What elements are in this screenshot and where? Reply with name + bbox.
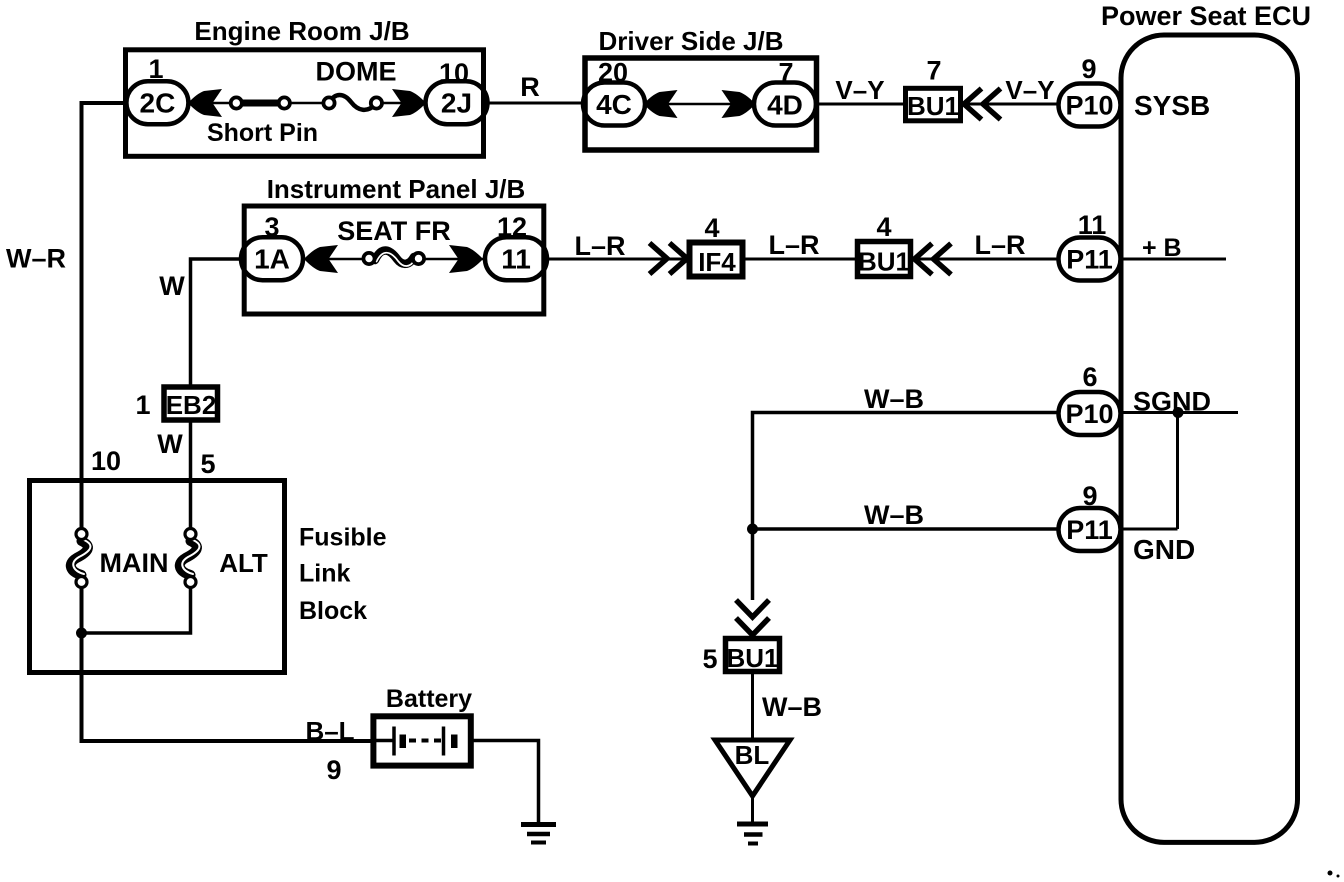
svg-text:9: 9	[326, 755, 341, 785]
svg-text:GND: GND	[1133, 534, 1195, 565]
svg-text:4C: 4C	[596, 89, 632, 120]
svg-text:W–B: W–B	[762, 692, 822, 722]
svg-text:EB2: EB2	[166, 390, 217, 420]
svg-text:12: 12	[497, 212, 527, 242]
svg-text:SYSB: SYSB	[1134, 90, 1210, 121]
svg-text:Instrument Panel J/B: Instrument Panel J/B	[267, 174, 526, 204]
svg-text:L–R: L–R	[574, 231, 625, 261]
svg-text:1A: 1A	[254, 244, 290, 275]
svg-text:B–L: B–L	[305, 716, 354, 746]
svg-text:W: W	[157, 429, 183, 459]
svg-text:W–R: W–R	[6, 244, 66, 274]
svg-text:L–R: L–R	[768, 230, 819, 260]
svg-text:Engine Room J/B: Engine Room J/B	[194, 16, 409, 46]
svg-text:V–Y: V–Y	[835, 75, 884, 105]
svg-text:20: 20	[598, 58, 628, 88]
svg-text:P11: P11	[1066, 515, 1113, 545]
svg-text:BU1: BU1	[726, 643, 778, 673]
svg-text:3: 3	[264, 212, 279, 242]
svg-text:BU1: BU1	[858, 247, 910, 277]
svg-text:V–Y: V–Y	[1005, 75, 1054, 105]
svg-text:W: W	[159, 271, 185, 301]
svg-text:Block: Block	[299, 597, 367, 625]
svg-text:+ B: + B	[1142, 234, 1182, 262]
svg-text:Link: Link	[299, 560, 350, 588]
svg-text:P10: P10	[1065, 399, 1113, 429]
svg-text:L–R: L–R	[974, 230, 1025, 260]
svg-text:SGND: SGND	[1133, 387, 1211, 417]
svg-text:4: 4	[876, 212, 891, 242]
svg-text:W–B: W–B	[864, 500, 924, 530]
svg-text:7: 7	[778, 58, 793, 88]
svg-text:10: 10	[439, 58, 469, 88]
svg-text:4: 4	[704, 213, 719, 243]
svg-text:P10: P10	[1065, 91, 1113, 121]
svg-text:1: 1	[135, 390, 150, 420]
svg-text:Fusible: Fusible	[299, 524, 387, 552]
svg-text:R: R	[520, 72, 540, 102]
svg-text:9: 9	[1081, 54, 1096, 84]
svg-text:IF4: IF4	[698, 247, 736, 277]
svg-text:10: 10	[91, 446, 121, 476]
svg-text:Power Seat ECU: Power Seat ECU	[1101, 1, 1311, 31]
svg-text:1: 1	[148, 54, 163, 84]
svg-text:11: 11	[1078, 210, 1107, 240]
svg-text:P11: P11	[1066, 245, 1113, 275]
svg-text:W–B: W–B	[864, 384, 924, 414]
svg-text:BL: BL	[735, 740, 770, 770]
svg-text:6: 6	[1082, 362, 1097, 392]
svg-text:5: 5	[702, 644, 717, 674]
svg-text:BU1: BU1	[907, 91, 959, 121]
svg-text:5: 5	[200, 449, 215, 479]
svg-text:MAIN: MAIN	[100, 548, 169, 578]
svg-text:2C: 2C	[140, 88, 176, 119]
svg-text:2J: 2J	[441, 88, 472, 119]
svg-text:Battery: Battery	[386, 685, 472, 713]
svg-text:4D: 4D	[767, 90, 803, 121]
svg-text:DOME: DOME	[316, 57, 397, 87]
svg-text:9: 9	[1082, 481, 1097, 511]
svg-text:SEAT FR: SEAT FR	[337, 216, 451, 246]
svg-text:Short Pin: Short Pin	[207, 119, 318, 147]
svg-text:ALT: ALT	[219, 548, 268, 578]
svg-text:Driver Side J/B: Driver Side J/B	[599, 26, 784, 56]
svg-text:11: 11	[501, 244, 531, 275]
svg-text:7: 7	[926, 56, 941, 86]
